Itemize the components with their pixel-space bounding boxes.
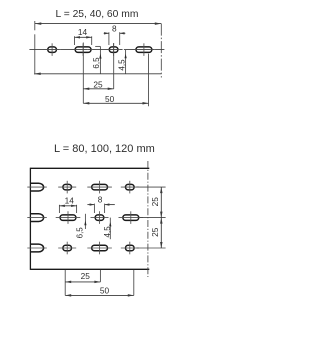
svg-text:25: 25 bbox=[150, 227, 160, 237]
svg-text:4,5: 4,5 bbox=[103, 226, 112, 238]
svg-text:8: 8 bbox=[98, 194, 103, 204]
svg-text:14: 14 bbox=[78, 27, 88, 37]
svg-text:4,5: 4,5 bbox=[118, 59, 127, 71]
svg-text:6,5: 6,5 bbox=[76, 227, 85, 239]
svg-text:25: 25 bbox=[81, 271, 91, 281]
svg-text:L = 25, 40, 60 mm: L = 25, 40, 60 mm bbox=[56, 9, 139, 20]
svg-text:8: 8 bbox=[112, 23, 117, 33]
svg-text:14: 14 bbox=[65, 195, 75, 205]
svg-text:50: 50 bbox=[105, 94, 115, 104]
svg-text:50: 50 bbox=[100, 286, 110, 296]
svg-text:25: 25 bbox=[150, 197, 160, 207]
svg-text:25: 25 bbox=[93, 79, 103, 89]
svg-text:L = 80, 100, 120 mm: L = 80, 100, 120 mm bbox=[54, 143, 155, 155]
svg-text:6,5: 6,5 bbox=[92, 57, 101, 69]
